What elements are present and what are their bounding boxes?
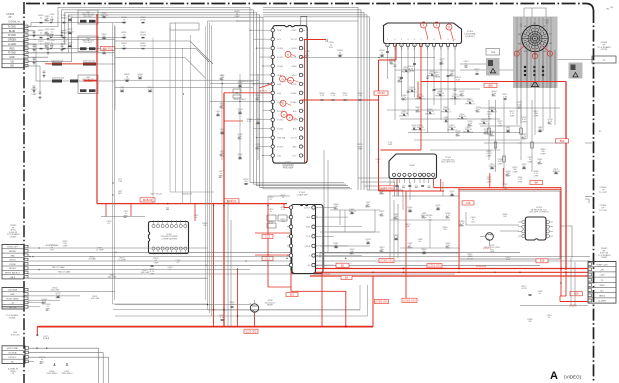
- wire: [330, 210, 460, 248]
- net B-OUT: [305, 39, 328, 163]
- svg-text:CSYNC: CSYNC: [9, 264, 17, 266]
- svg-text:CHIP: CHIP: [388, 144, 393, 146]
- svg-text:CHIP: CHIP: [513, 171, 518, 173]
- wire: [83, 64, 97, 81]
- svg-text:BEAD: BEAD: [61, 17, 67, 20]
- svg-text:IC305: IC305: [409, 165, 415, 167]
- svg-text:GND: GND: [600, 285, 605, 287]
- net bus label: [427, 264, 442, 268]
- node callout 4: [280, 100, 291, 106]
- RGB decoder IC302 body: [289, 205, 315, 274]
- wire: [183, 48, 184, 204]
- svg-text:NC: NC: [11, 361, 15, 363]
- capacitor C336: [29, 256, 33, 257]
- svg-text:4.7k: 4.7k: [247, 121, 251, 123]
- svg-text:HOST GND: HOST GND: [7, 348, 19, 350]
- svg-text:CHIP: CHIP: [518, 181, 523, 183]
- capacitor C346: [406, 215, 449, 243]
- Q306 label: [265, 300, 276, 307]
- wire: [392, 182, 460, 200]
- svg-text:C16: C16: [265, 256, 270, 260]
- wire: [390, 196, 403, 258]
- net RGB drop label: [259, 89, 267, 92]
- svg-text:A1: A1: [308, 264, 310, 267]
- connector CN302 note: [585, 187, 608, 197]
- node callout 5: [281, 111, 292, 117]
- net OSD highlight: [291, 270, 346, 327]
- svg-text:VCC: VCC: [293, 156, 298, 158]
- connector CN318: [2, 288, 28, 320]
- svg-text:JF2W: JF2W: [140, 35, 147, 37]
- wire: [115, 41, 213, 64]
- IC306 label: [441, 157, 456, 164]
- wire: [324, 150, 328, 269]
- net VIDEO highlight: [379, 45, 397, 192]
- resistor R331: [121, 32, 146, 39]
- svg-text:CHIP: CHIP: [490, 252, 495, 254]
- svg-text:S/TBY+15V: S/TBY+15V: [596, 264, 608, 266]
- filter L307: [38, 40, 98, 93]
- wire: [520, 305, 588, 307]
- svg-text:I2CSDA: I2CSDA: [9, 352, 17, 355]
- svg-text:B OUT: B OUT: [291, 57, 298, 59]
- svg-text:CHIP: CHIP: [534, 175, 539, 177]
- resistor g2 cluster: [488, 119, 560, 177]
- svg-text:VCC B: VCC B: [291, 138, 298, 140]
- svg-text:VZ55-RB6.2: VZ55-RB6.2: [61, 373, 73, 375]
- svg-text:VCC B: VCC B: [291, 39, 298, 41]
- node R-OUT label: [101, 46, 115, 50]
- net SCREEN label: [530, 180, 543, 184]
- IC305 sub label: [154, 258, 182, 264]
- svg-text:CHIP: CHIP: [534, 115, 539, 117]
- capacitor C306: [305, 50, 386, 58]
- net R1 drop: [560, 270, 562, 296]
- svg-text:100 CHIP: 100 CHIP: [108, 277, 117, 279]
- resistor R341: [408, 66, 462, 81]
- svg-text:B2: B2: [341, 263, 345, 267]
- net drop4: [254, 312, 256, 327]
- transistor Q301: [480, 233, 493, 246]
- svg-text:10k: 10k: [528, 321, 531, 323]
- svg-text:CHIP: CHIP: [150, 273, 155, 275]
- wire: [114, 25, 116, 300]
- svg-text:CUT-OFF CNT: CUT-OFF CNT: [441, 162, 456, 164]
- test point JW1: [113, 191, 123, 196]
- connector CN339: [2, 225, 28, 279]
- svg-text:B OKI): B OKI): [277, 48, 283, 50]
- svg-text:SPCLK: SPCLK: [9, 268, 16, 270]
- node callout 1: [285, 51, 296, 57]
- CRT socket V301: [522, 25, 548, 51]
- svg-text:S-W CN3: S-W CN3: [11, 334, 21, 336]
- svg-text:GND: GND: [10, 294, 15, 296]
- capacitor C338: [46, 304, 52, 310]
- capacitor C369: [528, 315, 553, 323]
- svg-text:+5V: +5V: [11, 303, 15, 305]
- net +12V bus: [300, 271, 588, 273]
- svg-text:2.2k: 2.2k: [358, 95, 362, 97]
- svg-text:4.7k: 4.7k: [220, 317, 224, 319]
- net +9V bus: [310, 268, 588, 270]
- wire: [268, 286, 291, 288]
- wire: [28, 303, 46, 307]
- wire: [317, 208, 362, 266]
- svg-text:10k: 10k: [443, 229, 446, 231]
- wire: [115, 26, 130, 110]
- node callout F: [421, 22, 429, 39]
- svg-text:(B5): (B5): [488, 83, 493, 87]
- wire: [0, 0, 1, 1]
- capacitor C317b: [219, 171, 250, 185]
- net AKB riser: [372, 276, 374, 327]
- capacitor input cluster: [33, 16, 74, 53]
- diode D307: [61, 364, 73, 376]
- svg-text:SYNC: SYNC: [291, 30, 297, 32]
- wire: [466, 212, 572, 258]
- svg-text:JF2W: JF2W: [140, 46, 147, 48]
- net RGB into IC302: [255, 204, 290, 287]
- svg-text:C15: C15: [265, 234, 270, 238]
- connector CN304 note: [585, 199, 608, 212]
- wire: [210, 98, 271, 102]
- capacitor ic306 parts: [380, 185, 456, 197]
- net S15V bus: [310, 275, 588, 277]
- svg-text:GND2: GND2: [599, 296, 606, 298]
- svg-text:ESD: ESD: [293, 120, 298, 122]
- net RGB-R highlight: [96, 14, 98, 204]
- net 180V label: [570, 292, 583, 296]
- wire: [249, 30, 268, 156]
- wire: [228, 200, 231, 327]
- svg-text:C25: C25: [466, 201, 471, 205]
- wire dots: [345, 268, 567, 328]
- svg-text:G GND: G GND: [8, 43, 16, 46]
- wire: [268, 196, 375, 246]
- svg-text:HOST GND2: HOST GND2: [6, 298, 19, 300]
- svg-text:VD-30: VD-30: [377, 91, 385, 95]
- svg-text:1u: 1u: [195, 217, 197, 219]
- node RGB label: [140, 198, 155, 202]
- net IC303 in: [458, 188, 460, 269]
- net label C15: [262, 234, 273, 238]
- wire: [524, 8, 546, 17]
- svg-text:CN802: CN802: [601, 257, 608, 259]
- net drop2: [213, 204, 215, 327]
- svg-text:HD: HD: [10, 65, 14, 68]
- resistor R327: [150, 265, 174, 275]
- wire: [170, 26, 214, 192]
- svg-text:JT-DAM: JT-DAM: [88, 258, 96, 261]
- svg-text:CHIP: CHIP: [154, 262, 159, 264]
- svg-text:1k: 1k: [282, 197, 284, 199]
- svg-text:B (G: B (G: [277, 84, 281, 86]
- node callout B: [446, 24, 454, 41]
- capacitor pre-amp cluster: [216, 75, 262, 160]
- node callout 6: [287, 115, 298, 121]
- wire: [387, 70, 520, 150]
- svg-text:SCL: SCL: [277, 39, 281, 41]
- wire: [170, 21, 358, 40]
- svg-text:OSD A: OSD A: [305, 245, 311, 248]
- wire: [28, 47, 125, 49]
- svg-text:10k: 10k: [503, 216, 506, 218]
- net 180V: [560, 296, 588, 302]
- wire: [459, 191, 560, 259]
- svg-text:RGB IN: RGB IN: [227, 199, 236, 203]
- wire: [263, 7, 370, 190]
- resistor R332: [234, 11, 250, 22]
- wire: [28, 260, 590, 262]
- svg-text:HSYNC: HSYNC: [9, 251, 17, 253]
- svg-text:B OKI): B OKI): [277, 66, 283, 68]
- svg-text:2.2k: 2.2k: [331, 95, 335, 97]
- ref mark: [607, 9, 611, 11]
- wire: [208, 21, 361, 310]
- net bus red text: [476, 266, 486, 268]
- svg-text:R326 A-CH: R326 A-CH: [182, 193, 193, 196]
- svg-text:BCM: BCM: [306, 227, 310, 229]
- wire: [585, 131, 602, 143]
- net AKB riser label: [375, 300, 389, 304]
- svg-text:VSCLK: VSCLK: [9, 260, 16, 262]
- svg-text:TB13 JT-DAM: TB13 JT-DAM: [52, 266, 65, 269]
- video driver IC306: [389, 154, 437, 183]
- wire: [175, 23, 177, 192]
- svg-text:1u CHIP: 1u CHIP: [118, 260, 126, 262]
- svg-text:CHIP: CHIP: [31, 94, 37, 96]
- net AKB end: [36, 327, 50, 341]
- svg-text:B8: B8: [535, 181, 539, 185]
- Q301 label: [484, 245, 501, 254]
- resistor R332: [121, 43, 146, 50]
- wire: [400, 89, 520, 133]
- svg-text:K3-B A7CH CH-P: K3-B A7CH CH-P: [239, 80, 255, 83]
- svg-text:(C301-?): (C301-?): [483, 248, 492, 250]
- svg-text:CHIP: CHIP: [528, 161, 533, 163]
- svg-text:1u: 1u: [270, 211, 272, 213]
- svg-text:BCM: BCM: [277, 30, 282, 32]
- svg-text:(CXA/QP): (CXA/QP): [465, 35, 475, 38]
- svg-text:PROTECT: PROTECT: [83, 42, 93, 44]
- wire: [28, 264, 540, 266]
- wire: [517, 50, 555, 143]
- net HEATER highlight: [421, 82, 566, 271]
- IC302 label: [297, 192, 308, 196]
- svg-text:B GND: B GND: [8, 34, 16, 37]
- wire: [88, 257, 246, 267]
- node G1 callouts: [514, 46, 553, 59]
- wire: [28, 40, 115, 50]
- svg-text:GREEN: GREEN: [8, 39, 17, 42]
- svg-text:CHIP: CHIP: [63, 245, 68, 247]
- resistor right cluster: [486, 111, 546, 190]
- net C301 label: [483, 248, 492, 250]
- wire: [488, 100, 534, 184]
- svg-text:S/H B: S/H B: [292, 48, 298, 50]
- wire: [305, 57, 436, 59]
- svg-text:(A73H-2): (A73H-2): [259, 89, 267, 92]
- svg-text:5: 5: [525, 79, 526, 81]
- capacitor C352: [464, 61, 481, 75]
- svg-text:TO CRT: TO CRT: [599, 192, 608, 194]
- transistor Q306: [250, 300, 259, 318]
- svg-text:B OSO: B OSO: [277, 129, 284, 131]
- svg-text:S-DNAL IN: S-DNAL IN: [8, 21, 20, 24]
- svg-text:CHIP: CHIP: [541, 153, 546, 155]
- net heater overlay: [421, 81, 566, 83]
- svg-text:VD: VD: [10, 60, 14, 63]
- delay line DL302: [36, 50, 115, 83]
- svg-text:A: A: [550, 370, 558, 382]
- connector CN303: [2, 12, 28, 68]
- svg-text:1k CHIP: 1k CHIP: [96, 250, 104, 252]
- video amp IC304: [384, 23, 462, 50]
- net R drive red: [259, 84, 273, 89]
- anode cap: [611, 7, 614, 9]
- wire: [458, 252, 460, 269]
- wire: [101, 204, 195, 221]
- net G2 branch: [379, 82, 445, 300]
- svg-text:(C301-HG): (C301-HG): [476, 266, 486, 268]
- wire: [29, 348, 99, 383]
- wire: [115, 58, 205, 78]
- wire: [125, 49, 209, 62]
- capacitor C364: [467, 214, 511, 261]
- net drop3: [237, 268, 239, 327]
- net R2 drop: [560, 272, 566, 296]
- svg-text:B GND: B GND: [291, 102, 298, 104]
- net HSYNC label: [150, 193, 192, 196]
- sync buffer IC305: [149, 220, 189, 255]
- net HV label: [556, 139, 569, 143]
- capacitor C309: [31, 66, 41, 99]
- svg-text:CHIP: CHIP: [498, 125, 503, 127]
- node callout A: [434, 22, 442, 39]
- svg-text:B12: B12: [560, 139, 565, 143]
- svg-text:INPUT SELECT: INPUT SELECT: [5, 273, 21, 275]
- capacitor IC302 cluster: [267, 195, 287, 228]
- svg-text:2004 1001-B: 2004 1001-B: [52, 78, 65, 80]
- wire: [113, 23, 208, 304]
- connector CN305 note: [598, 248, 611, 259]
- CRT socket board: [513, 17, 558, 89]
- net RGB bus: [97, 203, 287, 205]
- connector CN310: [2, 332, 29, 375]
- warning mark: [532, 81, 539, 87]
- svg-text:ESD BLA: ESD BLA: [277, 137, 286, 140]
- svg-text:CBLK: CBLK: [10, 277, 16, 279]
- wire: [28, 62, 48, 66]
- svg-text:B OSO: B OSO: [277, 147, 284, 149]
- wire: [28, 274, 208, 278]
- svg-text:RED: RED: [9, 47, 14, 50]
- svg-text:TO CRT: TO CRT: [599, 210, 608, 212]
- resistor R330: [121, 17, 146, 24]
- resistor R386: [521, 282, 561, 295]
- svg-text:(C301-SG): (C301-SG): [375, 300, 388, 304]
- svg-text:B (G: B (G: [277, 93, 281, 95]
- svg-text:CN803: CN803: [10, 237, 17, 239]
- capacitor host cluster: [42, 245, 62, 305]
- diode protect cluster: [399, 67, 497, 133]
- svg-text:R327 JF-CH: R327 JF-CH: [150, 194, 162, 196]
- wire: [222, 74, 258, 160]
- cutoff control IC303: [518, 217, 553, 240]
- svg-text:R GND: R GND: [8, 52, 16, 55]
- filter L306: [38, 29, 98, 51]
- resistor extra tl: [100, 13, 153, 93]
- wire: [29, 357, 109, 383]
- svg-text:GND: GND: [292, 147, 297, 149]
- net G2 label: [402, 298, 417, 302]
- svg-text:JF-CH: JF-CH: [467, 258, 473, 260]
- svg-text:100 CHIP: 100 CHIP: [51, 290, 60, 292]
- wire: [115, 304, 250, 305]
- svg-text:RGB-B: RGB-B: [43, 338, 50, 340]
- net SCREEN highlight: [434, 176, 562, 270]
- wire: [29, 361, 35, 363]
- net label V18: [379, 259, 394, 263]
- svg-text:+ DRIVE BUFFER: + DRIVE BUFFER: [161, 238, 178, 240]
- svg-text:F2: F2: [550, 34, 552, 36]
- wire: [480, 108, 566, 143]
- wire: [28, 35, 125, 37]
- net RGB drop: [224, 92, 271, 326]
- spark gaps SG301: [524, 66, 544, 81]
- net R row red: [45, 64, 97, 80]
- net HEATER label: [484, 83, 497, 87]
- svg-text:1u: 1u: [548, 317, 550, 319]
- net cutoff label: [536, 259, 548, 263]
- net VIDEO label: [374, 91, 388, 95]
- svg-text:R3-B (A73H-2): R3-B (A73H-2): [234, 98, 247, 101]
- wire: [115, 80, 259, 88]
- svg-text:CHIP: CHIP: [487, 155, 492, 157]
- wire: [571, 258, 575, 306]
- svg-text:CHIP: CHIP: [487, 118, 492, 120]
- wire: [29, 7, 353, 189]
- svg-text:CHIP: CHIP: [358, 149, 364, 151]
- svg-text:BLUE: BLUE: [9, 30, 16, 33]
- svg-text:PRE-AMP: PRE-AMP: [283, 167, 294, 170]
- resistor R345 group: [320, 93, 364, 101]
- wire: [29, 353, 104, 383]
- sheet title A VIDEO: [550, 370, 581, 382]
- svg-text:B18: B18: [540, 259, 545, 263]
- svg-text:2.2k: 2.2k: [343, 95, 347, 97]
- wire: [460, 64, 513, 70]
- net AKB bus: [37, 326, 373, 328]
- svg-text:BUFF: BUFF: [267, 305, 273, 307]
- svg-text:(-)-180V: (-)-180V: [598, 301, 607, 303]
- capacitor jungle cluster: [334, 202, 466, 255]
- net branch: [224, 119, 252, 123]
- capacitor gnd cluster: [33, 31, 64, 93]
- node callout 2: [280, 76, 291, 82]
- wire: [28, 248, 520, 254]
- svg-text:I-I2CSDA: I-I2CSDA: [8, 289, 17, 292]
- wire: [0, 0, 1, 1]
- wire: [28, 23, 125, 36]
- wire: [301, 16, 307, 25]
- svg-text:LOCK: LOCK: [521, 288, 527, 290]
- connector CN305: [588, 262, 616, 304]
- resistor R319 cluster: [358, 142, 394, 163]
- wire: [558, 59, 593, 61]
- svg-text:TB13 JT-DAM: TB13 JT-DAM: [58, 271, 71, 274]
- wire: [358, 178, 403, 196]
